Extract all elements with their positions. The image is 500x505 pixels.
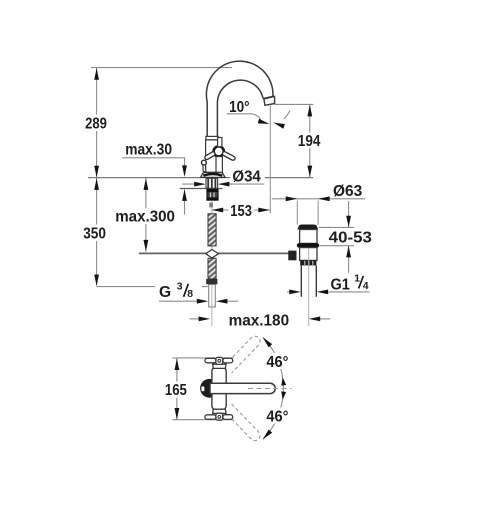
label G 3/8 bbox=[155, 281, 202, 301]
svg-text:10°: 10° bbox=[229, 99, 250, 116]
dim G3/8 tail left bbox=[159, 300, 198, 302]
handle lower column bbox=[216, 157, 222, 173]
svg-text:1: 1 bbox=[354, 274, 360, 285]
spout outer contour bbox=[206, 61, 273, 136]
clamp washer line bbox=[180, 188, 223, 190]
arrow max.30 down bbox=[182, 165, 187, 177]
svg-text:8: 8 bbox=[187, 289, 193, 300]
base flange bbox=[201, 172, 226, 177]
10° arrowhead right bbox=[272, 120, 284, 128]
max.30 dim line upper bbox=[184, 158, 186, 168]
arrow 289 down bbox=[94, 166, 99, 178]
max.30 dim line lower bbox=[184, 189, 186, 214]
arrow 40-53 up bbox=[346, 246, 351, 258]
label 46° upper bbox=[264, 353, 291, 369]
spout top view bbox=[210, 383, 275, 393]
handle top knob bbox=[216, 357, 223, 364]
arrow max.180 right bbox=[199, 317, 211, 322]
handle bottom spoke right bbox=[223, 415, 233, 420]
handle bottom knob bbox=[216, 413, 223, 420]
label 289 bbox=[83, 115, 110, 132]
svg-text:4: 4 bbox=[363, 281, 369, 292]
top reference line (289 upper) bbox=[91, 67, 232, 69]
arrow Ø34 left bbox=[218, 182, 230, 187]
svg-text:46°: 46° bbox=[266, 354, 288, 371]
handle bottom spoke left bbox=[205, 415, 216, 420]
handle top stem bbox=[213, 364, 226, 368]
countertop surface line right bbox=[265, 177, 313, 179]
165 extension line bottom bbox=[172, 419, 233, 421]
arrow swivel mid down bbox=[280, 391, 286, 400]
arrow max.30 up bbox=[182, 189, 187, 201]
base flange dark band bbox=[203, 174, 222, 176]
dim G1 1/4 tail right bbox=[323, 291, 370, 293]
dim 40-53 upper reference line bbox=[319, 226, 355, 228]
arrow Ø34 right bbox=[194, 182, 206, 187]
svg-text:G1: G1 bbox=[331, 276, 351, 293]
drain upper body bbox=[300, 230, 317, 244]
hose end nut bbox=[206, 279, 217, 284]
svg-text:G: G bbox=[159, 284, 171, 301]
svg-text:Ø63: Ø63 bbox=[333, 183, 363, 200]
handle top spoke left bbox=[205, 358, 216, 363]
label 165 bbox=[163, 382, 190, 398]
handle spoke right bbox=[225, 154, 234, 159]
Ø63 extension line left bbox=[296, 201, 298, 225]
arrow 194 down bbox=[307, 166, 312, 178]
10° leader bbox=[252, 114, 261, 120]
arrow G1 1/4 right bbox=[289, 290, 301, 295]
arrow 350 up bbox=[94, 178, 99, 190]
label 194 bbox=[296, 133, 323, 149]
handle top spoke right bbox=[223, 358, 233, 363]
dim max.180 tail right bbox=[315, 318, 331, 320]
drain o-ring bbox=[297, 243, 319, 247]
dim max.180 tail left bbox=[190, 318, 202, 320]
10° underline bbox=[227, 113, 253, 115]
svg-text:Ø34: Ø34 bbox=[232, 169, 261, 186]
arrow 289 up bbox=[94, 68, 99, 80]
mounting shank bbox=[206, 178, 218, 188]
165 extension line top bbox=[172, 357, 233, 359]
arrow swivel mid up bbox=[280, 377, 286, 386]
arrow Ø63 left bbox=[318, 196, 330, 201]
arrow 194 up bbox=[307, 105, 312, 117]
svg-text:289: 289 bbox=[85, 116, 107, 133]
arrow 165 down bbox=[175, 408, 180, 420]
dim 350 bottom reference line bbox=[97, 286, 208, 288]
dim 153 line bbox=[212, 209, 270, 211]
max.300 dim line bbox=[145, 178, 147, 252]
arrow G1 1/4 left bbox=[317, 290, 329, 295]
pop-up rod line bbox=[139, 252, 289, 254]
dim G3/8 tail right bbox=[222, 300, 238, 302]
drain rod clamp block bbox=[288, 251, 296, 261]
base circle notch bbox=[201, 386, 204, 391]
dim Ø34 line left bbox=[182, 183, 204, 185]
svg-text:194: 194 bbox=[298, 133, 321, 150]
arrow G3/8 left bbox=[216, 299, 228, 304]
label 46° lower bbox=[264, 408, 291, 424]
svg-text:165: 165 bbox=[165, 382, 187, 399]
svg-text:max.30: max.30 bbox=[125, 142, 172, 159]
label max.300 bbox=[113, 209, 177, 225]
arrow max.300 down bbox=[144, 240, 149, 252]
label 153 bbox=[229, 203, 255, 219]
pop-up pull knob bbox=[203, 165, 206, 172]
handle hub ring bbox=[214, 146, 224, 156]
faucet centerline bbox=[211, 200, 213, 326]
dim 165 line bbox=[176, 358, 178, 420]
svg-text:46°: 46° bbox=[266, 408, 288, 425]
arrow 153 right bbox=[258, 208, 270, 213]
spout extension line bbox=[269, 106, 271, 214]
dim Ø63 line bbox=[272, 198, 365, 200]
arrow G3/8 right bbox=[197, 299, 209, 304]
dim 194 reference line bbox=[275, 103, 314, 105]
max.30 underline bbox=[122, 157, 185, 159]
svg-text:max.300: max.300 bbox=[115, 209, 175, 226]
drain thread band bbox=[300, 260, 316, 265]
base circle dark (top view) bbox=[200, 379, 219, 398]
arrow max.300 up bbox=[144, 178, 149, 190]
faucet body bbox=[206, 140, 218, 173]
supply hose upper bbox=[208, 214, 216, 246]
drain flange bbox=[297, 225, 318, 230]
supply stub tube bbox=[209, 284, 216, 307]
arrow swivel lower end bbox=[261, 429, 272, 441]
spout aerator bbox=[263, 96, 275, 105]
label G1 1/4 bbox=[331, 274, 369, 294]
svg-text:153: 153 bbox=[230, 203, 252, 220]
dim G1 1/4 tail left bbox=[287, 291, 295, 293]
handle stem bbox=[218, 138, 222, 147]
handle spoke left bbox=[207, 154, 213, 158]
arrow 153 left bbox=[212, 208, 224, 213]
dim 40-53 line upper bbox=[348, 201, 350, 227]
10° arc tail right bbox=[284, 111, 290, 119]
arrow 40-53 down bbox=[346, 216, 351, 228]
drain centerline bbox=[308, 249, 310, 327]
arrow swivel upper end bbox=[261, 336, 272, 348]
shank thread stripes bbox=[208, 179, 215, 189]
label 350 bbox=[81, 225, 109, 242]
mounting nut bbox=[207, 189, 218, 200]
rod joint diamond bbox=[206, 250, 219, 259]
spout axis dashed line bbox=[248, 388, 292, 390]
swivel arc bbox=[263, 338, 283, 440]
dim 289 line bbox=[96, 68, 98, 178]
svg-text:350: 350 bbox=[83, 226, 106, 243]
ghost spout lower 46° bbox=[224, 404, 262, 443]
arrow Ø63 right bbox=[286, 196, 298, 201]
countertop surface line left bbox=[88, 177, 231, 179]
dim Ø34 line right bbox=[220, 183, 265, 185]
arrow max.180 left bbox=[309, 317, 321, 322]
arrow 165 up bbox=[175, 359, 180, 371]
supply hose lower bbox=[208, 258, 216, 279]
dim 194 line bbox=[309, 104, 311, 177]
dim 40-53 line lower bbox=[348, 246, 350, 273]
svg-text:40-53: 40-53 bbox=[329, 230, 373, 247]
handle bottom stem bbox=[213, 409, 226, 413]
svg-text:3: 3 bbox=[177, 281, 183, 292]
10° arrowhead left bbox=[258, 119, 270, 127]
body top view bbox=[212, 367, 226, 411]
svg-text:max.180: max.180 bbox=[229, 313, 290, 330]
dim 350 line bbox=[96, 178, 98, 286]
drain tailpipe bbox=[301, 265, 316, 296]
dim 40-53 lower reference line bbox=[320, 245, 355, 247]
arrow 350 down bbox=[94, 275, 99, 287]
ghost spout upper 46° bbox=[224, 334, 262, 373]
drain lower body bbox=[300, 248, 317, 261]
hose connector stub bbox=[209, 203, 213, 208]
Ø63 extension line right bbox=[317, 201, 319, 225]
spout inner contour bbox=[217, 80, 263, 136]
faucet collar bbox=[206, 136, 218, 140]
